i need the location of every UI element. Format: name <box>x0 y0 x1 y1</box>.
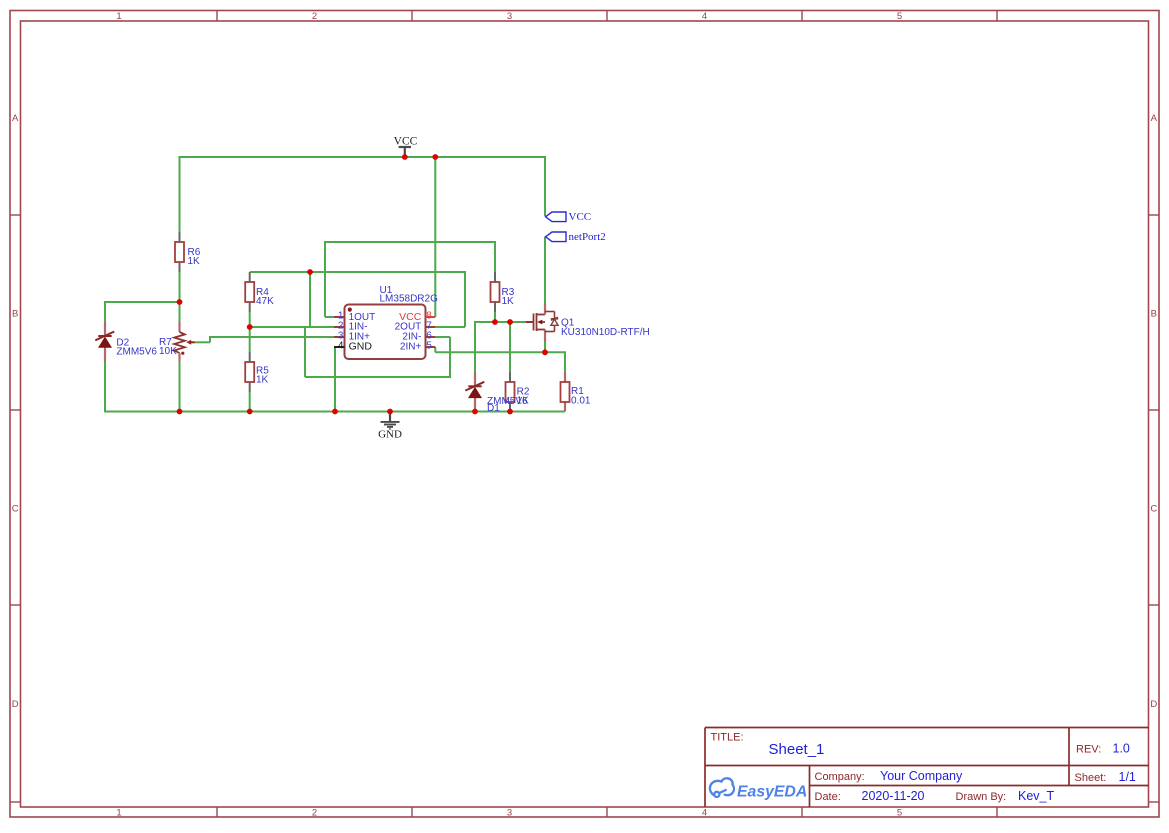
op-amp U1 <box>345 285 439 359</box>
junction dot R3 on gate net <box>492 319 498 325</box>
junction dot Q1 source <box>542 349 548 355</box>
svg-text:VCC: VCC <box>569 211 592 223</box>
resistor R5 <box>245 352 269 392</box>
svg-text:VCC: VCC <box>394 136 418 148</box>
svg-text:EasyEDA: EasyEDA <box>737 784 807 801</box>
netflag netPort2 <box>546 231 606 243</box>
resistor R2 <box>506 372 530 412</box>
junction dot R2 on gate net <box>507 319 513 325</box>
svg-text:ZMM5V6: ZMM5V6 <box>116 347 157 358</box>
svg-text:1K: 1K <box>502 296 515 307</box>
junction dot R7 ground <box>177 409 183 415</box>
title block Drawn By label <box>956 791 1007 803</box>
svg-text:A: A <box>1151 113 1158 124</box>
wire R6 bottom to R7 top <box>179 272 181 322</box>
zener diode D2 <box>95 322 157 362</box>
power symbol VCC <box>394 136 418 158</box>
resistor R1 <box>561 372 591 412</box>
frame ruler row letters right <box>1150 113 1157 710</box>
svg-text:2: 2 <box>312 807 317 818</box>
svg-text:netPort2: netPort2 <box>569 231 606 243</box>
junction dot VCC stem <box>402 154 408 160</box>
svg-text:Your Company: Your Company <box>880 769 963 783</box>
U1 pin 5 <box>400 341 435 353</box>
wire top rail to R6 <box>179 156 181 232</box>
wire R4 bottom to R5 top <box>249 312 251 352</box>
svg-text:3: 3 <box>507 11 512 22</box>
svg-text:1: 1 <box>116 807 121 818</box>
title block sheet name value <box>769 741 825 758</box>
title block sheet value <box>1119 770 1136 784</box>
svg-text:Kev_T: Kev_T <box>1018 789 1054 803</box>
wire R4 top to U1 pin7 <box>250 272 466 327</box>
wire R7 bottom to ground rail <box>179 362 181 412</box>
junction dot pin4 ground <box>332 409 338 415</box>
wire U1 pin1 to R3 top loop <box>324 242 496 317</box>
netflag VCC <box>546 211 592 223</box>
U1 pin 3 <box>334 331 370 343</box>
wire R3 bottom gate net <box>475 312 526 322</box>
svg-text:4: 4 <box>702 11 707 22</box>
title block Sheet label <box>1075 772 1107 784</box>
EasyEDA logo cloud <box>710 778 734 797</box>
junction dot R6 D2 R7 node <box>177 299 183 305</box>
wire gate net to R2 <box>509 322 511 372</box>
U1 pin 6 <box>402 331 435 343</box>
wire ground rail <box>104 411 565 413</box>
svg-text:LM358DR2G: LM358DR2G <box>380 294 439 305</box>
frame ruler column numbers top <box>116 11 902 22</box>
wire U1 pin2 branch <box>309 272 311 327</box>
svg-text:1/1: 1/1 <box>1119 770 1136 784</box>
svg-text:C: C <box>12 504 19 515</box>
svg-text:1: 1 <box>116 11 121 22</box>
wire divider node to U1 pin6 feedback <box>250 327 451 377</box>
potentiometer R7 <box>159 322 195 362</box>
junction dot pin2 net on y272 wire <box>307 269 313 275</box>
svg-text:4: 4 <box>702 807 707 818</box>
frame ruler column numbers bottom <box>116 807 902 818</box>
U1 pin 8 VCC <box>399 311 435 323</box>
wire VCC rail down to VCC netflag <box>544 156 546 216</box>
svg-text:A: A <box>12 113 19 124</box>
U1 pin 1 <box>334 311 375 323</box>
svg-text:REV:: REV: <box>1076 744 1101 756</box>
wire D2 bottom to ground rail <box>104 362 106 413</box>
svg-text:KU310N10D-RTF/H: KU310N10D-RTF/H <box>561 327 650 338</box>
svg-text:Sheet_1: Sheet_1 <box>769 741 825 758</box>
title block rev value <box>1113 742 1130 756</box>
zener diode D1 <box>465 372 528 414</box>
transistor Q1 <box>526 303 650 342</box>
svg-text:TITLE:: TITLE: <box>711 732 744 744</box>
wire U1 pin3 to R7 wiper <box>195 336 334 342</box>
wire Q1 source down <box>544 342 546 352</box>
svg-text:1.0: 1.0 <box>1113 742 1130 756</box>
resistor R6 <box>175 232 201 272</box>
svg-text:Sheet:: Sheet: <box>1075 772 1107 784</box>
title block lines <box>705 728 1149 807</box>
title block Date label <box>815 791 841 803</box>
svg-text:GND: GND <box>378 429 402 441</box>
junction dot R2 ground <box>507 409 513 415</box>
svg-text:5: 5 <box>897 807 902 818</box>
svg-text:10K: 10K <box>159 346 177 357</box>
wire node to D2 <box>105 301 180 322</box>
junction dot GND symbol <box>387 409 393 415</box>
svg-text:3: 3 <box>507 807 512 818</box>
wire R5 bottom to ground rail <box>249 392 251 412</box>
svg-text:B: B <box>1151 309 1157 320</box>
title block REV label <box>1076 744 1101 756</box>
wire U1 pin5 to Q1 source and R1 <box>435 347 566 372</box>
resistor R4 <box>245 272 274 312</box>
svg-text:D: D <box>1150 699 1157 710</box>
ground symbol GND <box>378 412 402 441</box>
svg-text:2020-11-20: 2020-11-20 <box>862 789 925 803</box>
resistor R3 <box>491 272 515 312</box>
junction dot D1 ground <box>472 409 478 415</box>
wire netPort2 flag to Q1 drain <box>544 237 546 304</box>
title block company value <box>880 769 963 783</box>
svg-text:47K: 47K <box>256 296 274 307</box>
svg-text:5: 5 <box>897 11 902 22</box>
svg-text:GND: GND <box>349 340 373 352</box>
title block date value <box>862 789 925 803</box>
svg-text:0.01: 0.01 <box>571 396 591 407</box>
svg-text:5: 5 <box>426 341 432 352</box>
wire gate net to D1 <box>474 321 476 372</box>
U1 pin 2 <box>334 321 368 333</box>
wire VCC rail to U1 pin 8 <box>434 157 436 317</box>
svg-text:1K: 1K <box>256 375 269 386</box>
svg-text:2IN+: 2IN+ <box>400 341 422 352</box>
title block TITLE label <box>711 732 744 744</box>
title block drawn by value <box>1018 789 1054 803</box>
svg-text:Company:: Company: <box>815 771 865 783</box>
svg-text:Drawn By:: Drawn By: <box>956 791 1007 803</box>
svg-text:B: B <box>12 309 18 320</box>
junction dot rail to pin8 wire <box>432 154 438 160</box>
wire U1 pin4 to ground rail <box>334 347 336 412</box>
title block Company label <box>815 771 865 783</box>
svg-text:2: 2 <box>312 11 317 22</box>
svg-text:D: D <box>12 699 19 710</box>
svg-text:Date:: Date: <box>815 791 841 803</box>
svg-text:1K: 1K <box>188 256 201 267</box>
U1 pin 7 <box>395 321 436 333</box>
svg-text:4: 4 <box>338 341 344 352</box>
svg-text:C: C <box>1150 504 1157 515</box>
wire VCC top rail <box>180 156 546 158</box>
U1 pin 4 GND <box>334 340 372 352</box>
junction dot divider node <box>247 324 253 330</box>
EasyEDA logo text <box>737 784 807 801</box>
junction dot R5 ground <box>247 409 253 415</box>
frame ruler row letters left <box>12 113 19 710</box>
svg-text:D1: D1 <box>487 403 500 414</box>
